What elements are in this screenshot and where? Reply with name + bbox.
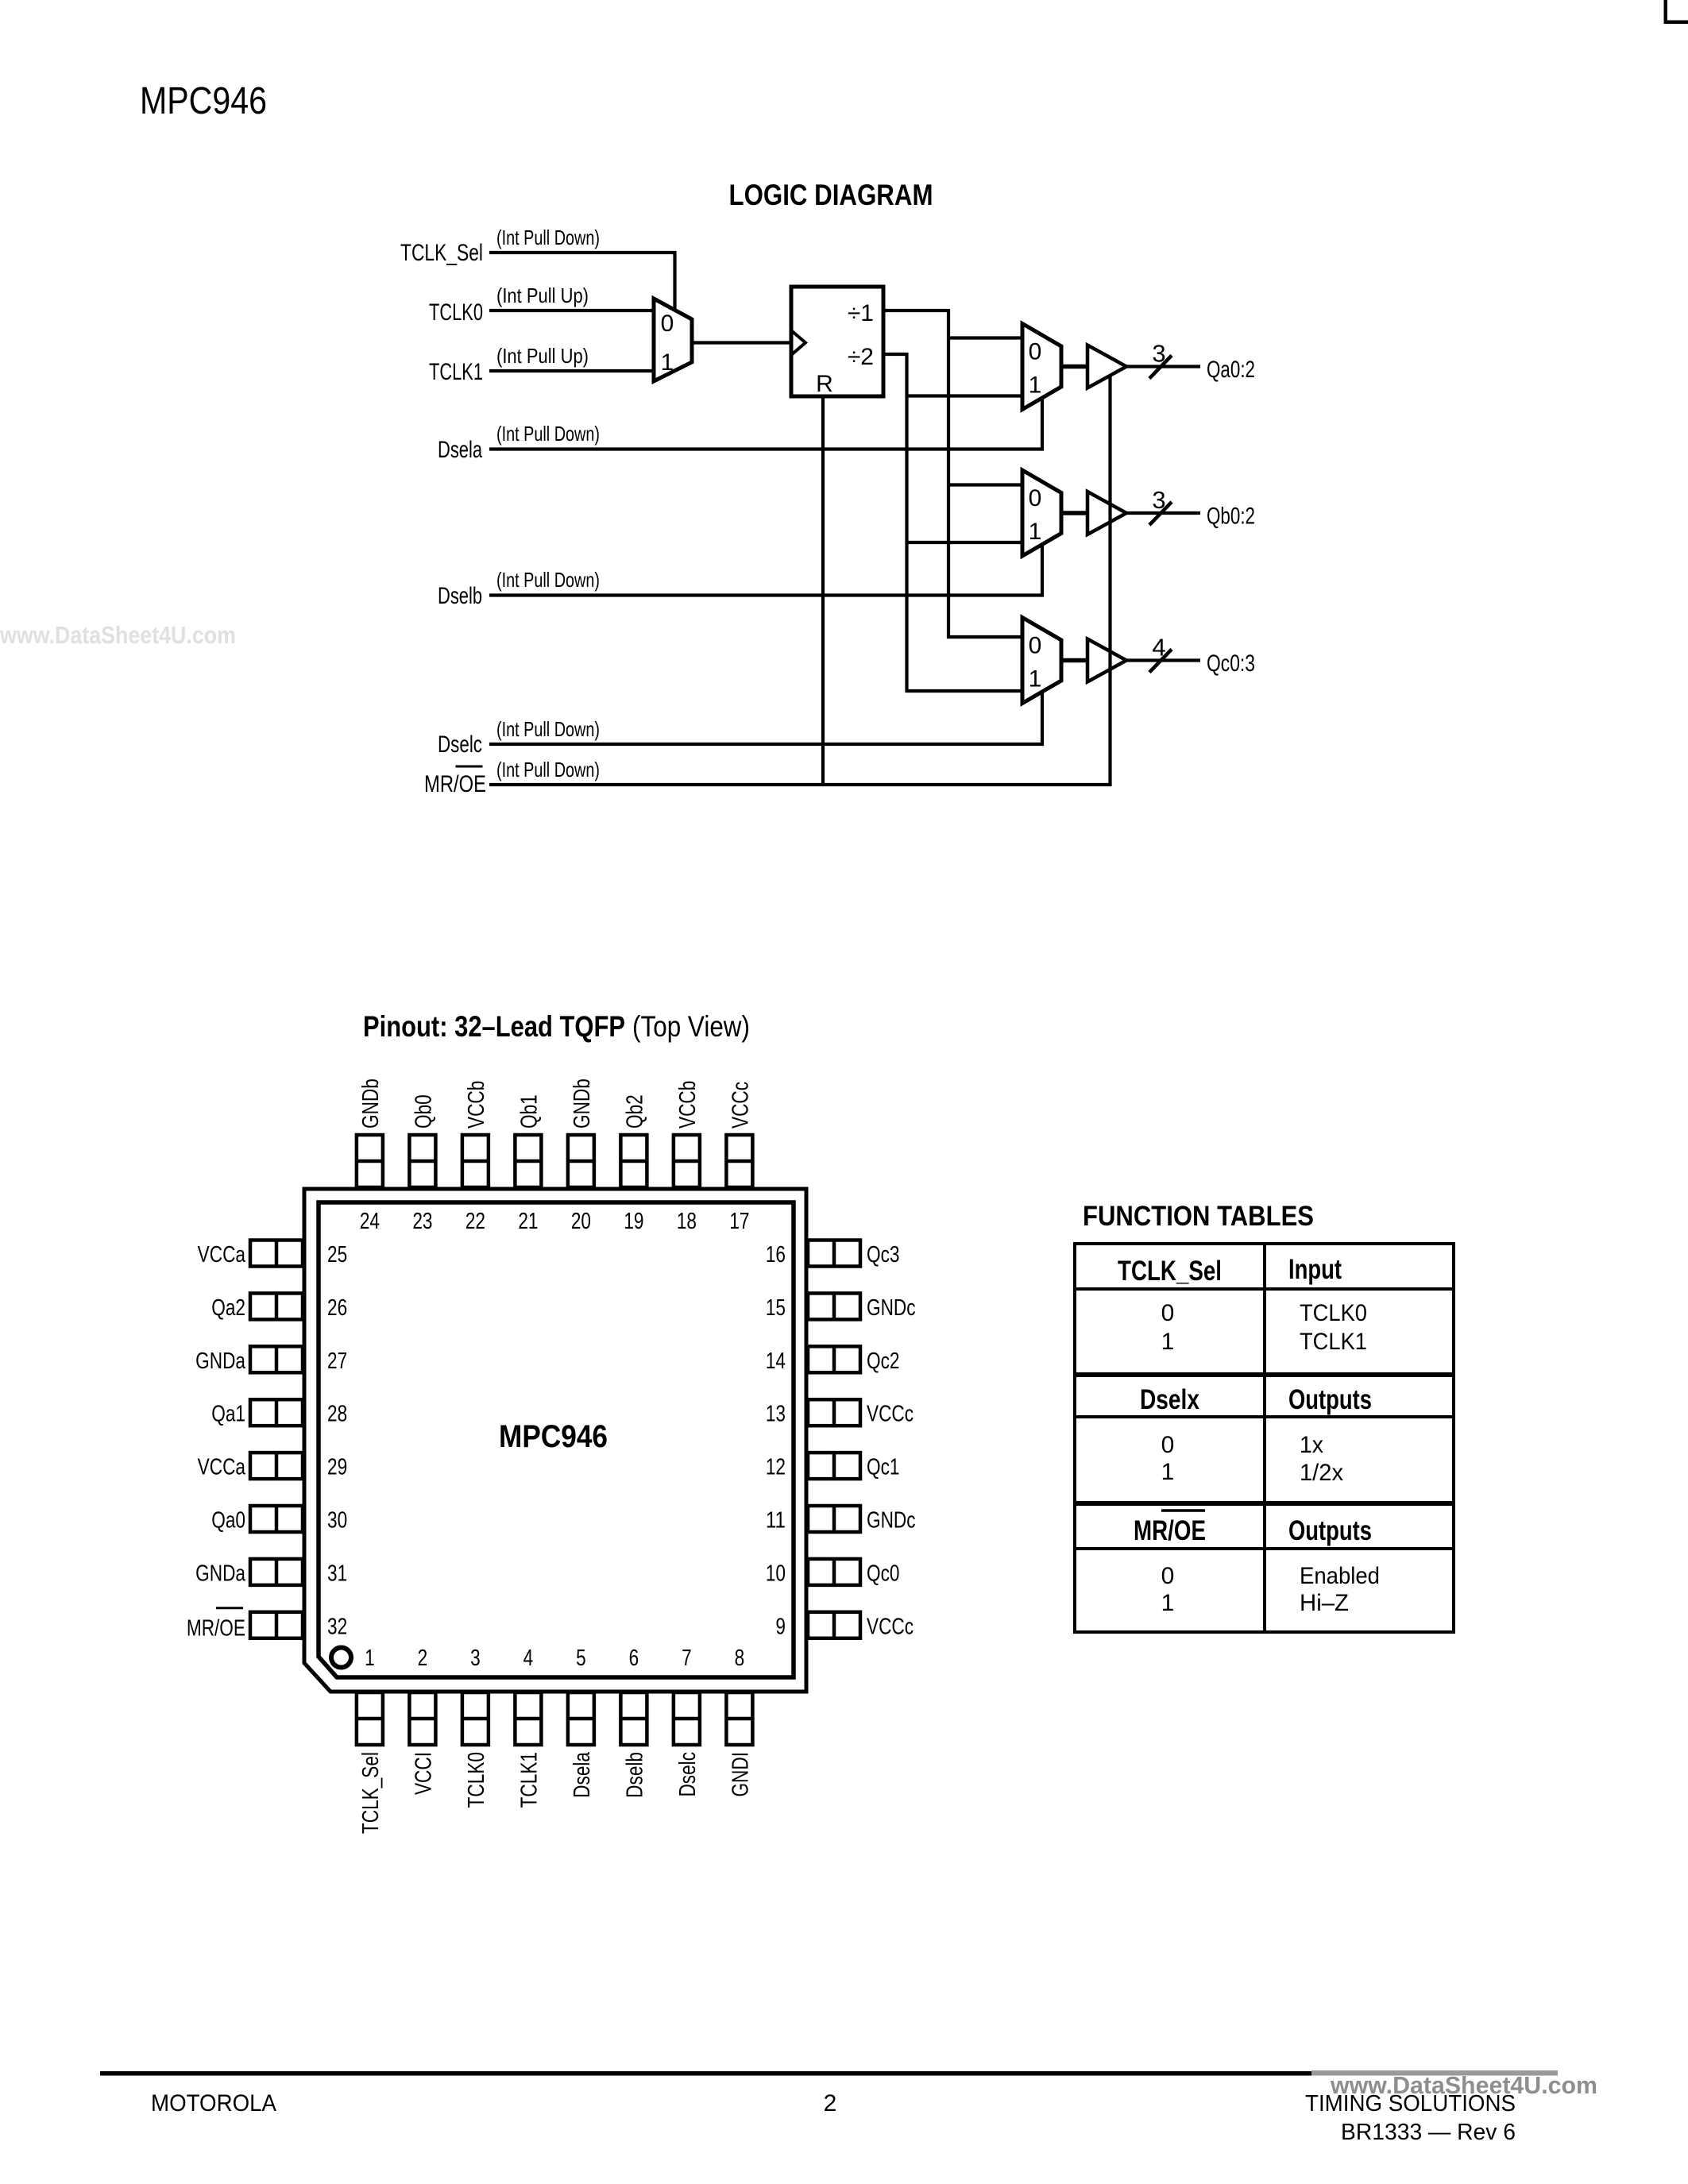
svg-text:0: 0 (661, 311, 674, 337)
pin 20 lead (568, 1135, 594, 1187)
svg-text:GNDa: GNDa (195, 1349, 246, 1374)
svg-text:31: 31 (327, 1561, 347, 1586)
svg-text:10: 10 (766, 1561, 786, 1586)
buffer U4c (1087, 639, 1126, 682)
pin 13 lead (808, 1399, 860, 1426)
chip inner outline (319, 1202, 794, 1677)
svg-text:TCLK_Sel: TCLK_Sel (1118, 1256, 1222, 1287)
svg-text:21: 21 (518, 1209, 538, 1234)
svg-text:27: 27 (327, 1349, 347, 1374)
svg-text:1/2x: 1/2x (1300, 1460, 1343, 1486)
svg-text:1x: 1x (1300, 1432, 1323, 1458)
wire reset net R (821, 396, 825, 786)
svg-text:1: 1 (1161, 1329, 1175, 1355)
wire Dsela (489, 447, 1044, 450)
wire MR/OE (489, 783, 1112, 786)
svg-text:12: 12 (766, 1455, 786, 1480)
svg-text:Qa0: Qa0 (211, 1508, 245, 1534)
svg-text:Qc0: Qc0 (867, 1561, 899, 1586)
svg-text:÷1: ÷1 (848, 300, 874, 326)
svg-text:VCCb: VCCb (675, 1081, 701, 1129)
svg-text:Qa1: Qa1 (211, 1402, 245, 1427)
pin 27 lead (250, 1346, 303, 1372)
svg-text:5: 5 (576, 1646, 586, 1671)
pin 31 lead (250, 1559, 303, 1585)
pin 32 lead (250, 1612, 303, 1638)
svg-text:www.DataSheet4U.com: www.DataSheet4U.com (0, 621, 236, 649)
svg-text:TCLK0: TCLK0 (464, 1752, 489, 1808)
svg-text:13: 13 (766, 1402, 786, 1427)
mux U3b output divider select (1022, 470, 1061, 556)
svg-text:GNDc: GNDc (867, 1508, 916, 1534)
svg-text:Enabled: Enabled (1300, 1563, 1380, 1589)
pin 18 lead (674, 1135, 700, 1187)
svg-text:Qb2: Qb2 (622, 1094, 647, 1129)
svg-text:Dselc: Dselc (675, 1752, 701, 1797)
svg-text:(Int Pull Down): (Int Pull Down) (496, 226, 600, 249)
svg-text:4: 4 (1152, 634, 1165, 662)
svg-text:MR/OE: MR/OE (187, 1615, 245, 1641)
svg-text:1: 1 (661, 349, 674, 376)
svg-text:Qa2: Qa2 (211, 1295, 245, 1321)
svg-text:16: 16 (766, 1242, 786, 1268)
svg-text:LOGIC DIAGRAM: LOGIC DIAGRAM (729, 179, 933, 211)
wire output bus Qc0:3 (1126, 658, 1200, 662)
function table frame (1075, 1244, 1454, 1632)
svg-text:Pinout: 32–Lead TQFP: Pinout: 32–Lead TQFP (363, 1010, 625, 1043)
svg-text:28: 28 (327, 1402, 347, 1427)
svg-text:VCCa: VCCa (198, 1455, 246, 1480)
svg-text:0: 0 (1161, 1432, 1175, 1458)
svg-text:0: 0 (1029, 339, 1042, 365)
wire TCLK1 (489, 369, 654, 372)
svg-text:Qb1: Qb1 (516, 1094, 542, 1129)
wire div1 net (883, 309, 948, 312)
svg-text:Dselc: Dselc (438, 731, 482, 758)
svg-text:0: 0 (1161, 1300, 1175, 1326)
svg-text:32: 32 (327, 1614, 347, 1639)
pin 21 lead (515, 1135, 541, 1187)
svg-text:(Int Pull Down): (Int Pull Down) (496, 568, 600, 592)
divider U2 clock wedge (791, 330, 805, 355)
pin 30 lead (250, 1506, 303, 1532)
pin 24 lead (357, 1135, 383, 1187)
svg-text:÷2: ÷2 (848, 344, 874, 370)
wire output bus Qa0:2 (1126, 365, 1200, 368)
divider U2 box (791, 287, 883, 396)
svg-text:6: 6 (629, 1646, 639, 1671)
svg-text:Dsela: Dsela (570, 1751, 595, 1797)
svg-text:TCLK0: TCLK0 (1300, 1300, 1367, 1326)
wire Dselb (489, 593, 1044, 596)
pin 17 lead (726, 1135, 752, 1187)
bus slash Qa0:2 (1149, 356, 1172, 379)
svg-text:18: 18 (677, 1209, 697, 1234)
pin 9 lead (808, 1612, 860, 1638)
svg-text:19: 19 (624, 1209, 643, 1234)
pin 7 lead (674, 1692, 700, 1745)
mux U3c output divider select (1022, 618, 1061, 704)
svg-text:(Int Pull Up): (Int Pull Up) (496, 284, 589, 307)
wire div2 net (883, 353, 907, 356)
chip outer outline (304, 1189, 806, 1692)
svg-text:MR/OE: MR/OE (1134, 1515, 1206, 1546)
svg-text:VCCa: VCCa (198, 1242, 246, 1268)
page corner mark top-right (1664, 0, 1668, 24)
svg-text:Dsela: Dsela (438, 437, 482, 463)
svg-text:MPC946: MPC946 (499, 1419, 608, 1454)
svg-text:GNDa: GNDa (195, 1561, 246, 1586)
svg-text:1: 1 (1161, 1590, 1175, 1616)
svg-text:(Int Pull Up): (Int Pull Up) (496, 344, 589, 368)
svg-text:20: 20 (571, 1209, 591, 1234)
svg-text:0: 0 (1029, 485, 1042, 511)
wire mux U3a to buffer (1061, 365, 1087, 369)
svg-text:MOTOROLA: MOTOROLA (151, 2090, 276, 2116)
pin 6 lead (620, 1692, 647, 1745)
pin 4 lead (515, 1692, 541, 1745)
svg-text:26: 26 (327, 1295, 347, 1321)
svg-text:Dselb: Dselb (438, 583, 482, 609)
svg-text:Qc1: Qc1 (867, 1455, 899, 1480)
pin 11 lead (808, 1506, 860, 1532)
footer rule (100, 2071, 1311, 2076)
svg-text:VCCc: VCCc (728, 1082, 753, 1129)
pin 8 lead (726, 1692, 752, 1745)
pin 14 lead (808, 1346, 860, 1372)
pin 3 lead (462, 1692, 489, 1745)
svg-text:Qa0:2: Qa0:2 (1207, 357, 1255, 383)
svg-text:Qc2: Qc2 (867, 1349, 899, 1374)
svg-text:8: 8 (735, 1646, 745, 1671)
pin 12 lead (808, 1453, 860, 1479)
svg-text:25: 25 (327, 1242, 347, 1268)
svg-text:1: 1 (1029, 666, 1042, 693)
svg-text:Hi–Z: Hi–Z (1300, 1590, 1349, 1616)
svg-text:TCLK0: TCLK0 (429, 299, 483, 326)
svg-text:30: 30 (327, 1508, 347, 1534)
svg-text:Qc0:3: Qc0:3 (1207, 650, 1255, 677)
svg-text:GNDb: GNDb (570, 1078, 595, 1129)
pin 22 lead (462, 1135, 489, 1187)
svg-text:7: 7 (682, 1646, 692, 1671)
svg-text:17: 17 (729, 1209, 749, 1234)
svg-text:Qb0: Qb0 (411, 1094, 436, 1129)
pin 28 lead (250, 1399, 303, 1426)
function table section divider 1 (1075, 1372, 1454, 1377)
svg-text:FUNCTION TABLES: FUNCTION TABLES (1083, 1201, 1314, 1232)
wire Dselc (489, 743, 1044, 746)
svg-text:MPC946: MPC946 (140, 80, 267, 122)
svg-text:GNDc: GNDc (867, 1295, 916, 1321)
wire mux U3c to buffer (1061, 658, 1087, 663)
footer rule gray segment (1311, 2070, 1558, 2076)
svg-text:2: 2 (824, 2090, 837, 2116)
svg-text:29: 29 (327, 1455, 347, 1480)
function table row line 1 (1075, 1287, 1454, 1291)
pin 2 lead (409, 1692, 435, 1745)
svg-text:TCLK1: TCLK1 (1300, 1329, 1367, 1355)
wire mux U3b to buffer (1061, 511, 1087, 515)
svg-text:1: 1 (1029, 372, 1042, 399)
pin 25 lead (250, 1241, 303, 1267)
svg-text:24: 24 (360, 1209, 380, 1234)
svg-text:22: 22 (465, 1209, 485, 1234)
svg-text:1: 1 (1029, 519, 1042, 545)
svg-text:3: 3 (1152, 486, 1165, 514)
mux U3a output divider select (1022, 324, 1061, 410)
wire output bus Qb0:2 (1126, 511, 1200, 515)
wire Dselb select stub (1041, 545, 1044, 597)
pin 16 lead (808, 1241, 860, 1267)
pin 1 lead (357, 1692, 383, 1745)
svg-text:Dselx: Dselx (1140, 1384, 1199, 1415)
buffer U4a (1087, 345, 1126, 388)
svg-text:(Int Pull Down): (Int Pull Down) (496, 422, 600, 446)
svg-text:Outputs: Outputs (1288, 1384, 1372, 1415)
function table section divider 2 (1075, 1501, 1454, 1506)
pin 23 lead (409, 1135, 435, 1187)
svg-text:VCCc: VCCc (867, 1614, 914, 1639)
svg-text:3: 3 (1152, 340, 1165, 368)
pin 19 lead (620, 1135, 647, 1187)
svg-text:VCCI: VCCI (411, 1752, 436, 1795)
svg-text:GNDb: GNDb (358, 1078, 384, 1129)
pin 26 lead (250, 1293, 303, 1319)
svg-text:Dselb: Dselb (622, 1752, 647, 1798)
svg-text:11: 11 (766, 1508, 786, 1534)
svg-text:TCLK_Sel: TCLK_Sel (400, 240, 483, 266)
svg-text:14: 14 (766, 1349, 786, 1374)
pin 15 lead (808, 1293, 860, 1319)
pin 1 index circle (331, 1648, 351, 1668)
svg-text:GNDI: GNDI (728, 1752, 753, 1797)
svg-text:(Int Pull Down): (Int Pull Down) (496, 717, 600, 741)
pin 5 lead (568, 1692, 594, 1745)
wire Dselc select stub (1041, 693, 1044, 747)
function table row line 3 (1075, 1547, 1454, 1550)
svg-text:9: 9 (775, 1614, 786, 1639)
svg-text:R: R (816, 371, 833, 397)
function table row line 2 (1075, 1415, 1454, 1418)
svg-text:VCCc: VCCc (867, 1402, 914, 1427)
svg-text:Qb0:2: Qb0:2 (1207, 504, 1255, 530)
svg-text:1: 1 (365, 1646, 375, 1671)
svg-text:Outputs: Outputs (1288, 1515, 1372, 1546)
svg-text:BR1333 — Rev 6: BR1333 — Rev 6 (1341, 2120, 1516, 2145)
function table column divider (1263, 1244, 1266, 1632)
wire output enable net (1108, 376, 1111, 786)
svg-text:2: 2 (418, 1646, 428, 1671)
wire mux U1 output (692, 341, 791, 344)
svg-text:TCLK_Sel: TCLK_Sel (358, 1752, 384, 1834)
bus slash Qb0:2 (1149, 502, 1172, 525)
svg-text:Qc3: Qc3 (867, 1242, 899, 1268)
svg-text:Input: Input (1288, 1254, 1342, 1285)
svg-text:23: 23 (412, 1209, 432, 1234)
wire TCLK_Sel (489, 251, 677, 254)
svg-text:3: 3 (470, 1646, 481, 1671)
svg-text:TIMING SOLUTIONS: TIMING SOLUTIONS (1305, 2091, 1516, 2116)
pin 29 lead (250, 1453, 303, 1479)
wire Dsela select stub (1041, 398, 1044, 451)
svg-text:0: 0 (1161, 1563, 1175, 1589)
svg-text:TCLK1: TCLK1 (516, 1752, 542, 1808)
svg-text:MR/OE: MR/OE (424, 771, 486, 797)
wire TCLK0 (489, 309, 654, 312)
pin 10 lead (808, 1559, 860, 1585)
buffer U4b (1087, 492, 1126, 534)
svg-text:1: 1 (1161, 1459, 1175, 1485)
mux U1 clock select (654, 299, 692, 381)
svg-text:(Top View): (Top View) (632, 1010, 750, 1043)
svg-text:4: 4 (523, 1646, 534, 1671)
svg-text:(Int Pull Down): (Int Pull Down) (496, 758, 600, 781)
svg-text:0: 0 (1029, 633, 1042, 659)
svg-text:TCLK1: TCLK1 (429, 359, 483, 385)
svg-text:15: 15 (766, 1295, 786, 1321)
svg-text:VCCb: VCCb (464, 1081, 489, 1129)
bus slash Qc0:3 (1149, 650, 1172, 673)
